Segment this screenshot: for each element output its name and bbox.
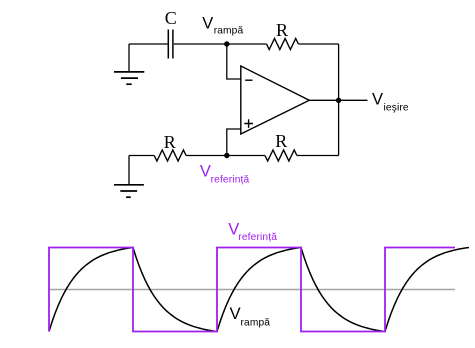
wire op-amp output — [309, 99, 367, 101]
wire bottom-left resistor to node Vref — [186, 155, 227, 157]
node output (junction dot) — [336, 98, 341, 103]
wire feedback resistor to right rail — [298, 43, 338, 45]
ground (top-left) — [114, 72, 144, 84]
node Vrampa (junction dot) — [224, 41, 229, 46]
wire capacitor to node Vrampa — [174, 43, 227, 45]
ground (bottom-left) — [114, 185, 144, 197]
svg-text:V: V — [200, 163, 211, 181]
zero axis (gray) — [49, 289, 455, 291]
capacitor C — [165, 8, 177, 58]
label V referinta (waveform) — [228, 221, 277, 243]
wire bottom-left from ground to resistor — [129, 156, 154, 185]
svg-text:ieşire: ieşire — [384, 102, 409, 113]
wire right rail (output feedback) — [338, 44, 340, 156]
V referinta square wave — [49, 248, 455, 332]
label V referinta (circuit) — [200, 163, 250, 186]
resistor R (feedback, top) — [267, 20, 299, 50]
svg-text:referință: referință — [238, 232, 277, 243]
wire bottom-right resistor to right rail — [297, 155, 339, 157]
wire top-left from ground to capacitor — [129, 44, 168, 72]
node Vref (junction dot) — [224, 153, 229, 158]
resistor R (bottom-left) — [154, 132, 186, 161]
svg-text:V: V — [230, 305, 241, 323]
svg-text:referință: referință — [211, 175, 250, 186]
svg-text:rampă: rampă — [214, 26, 244, 37]
V rampa exponential curve — [49, 248, 469, 332]
label V rampa (waveform) — [230, 305, 271, 328]
svg-text:R: R — [275, 131, 287, 151]
svg-text:R: R — [164, 132, 176, 152]
op-amp U1 — [241, 66, 309, 134]
resistor R (bottom-right) — [265, 131, 297, 161]
svg-text:rampă: rampă — [241, 317, 271, 328]
svg-text:R: R — [276, 20, 288, 40]
svg-text:C: C — [165, 8, 177, 28]
svg-text:V: V — [202, 15, 213, 33]
label V iesire — [372, 90, 409, 113]
label V rampa — [202, 15, 243, 37]
svg-text:V: V — [372, 90, 383, 108]
wire node Vref to bottom-right resistor — [227, 155, 265, 157]
wire top rail to feedback resistor — [227, 43, 267, 45]
wire node to inverting input — [227, 44, 241, 79]
wire non-inverting input to node Vref — [227, 129, 241, 156]
